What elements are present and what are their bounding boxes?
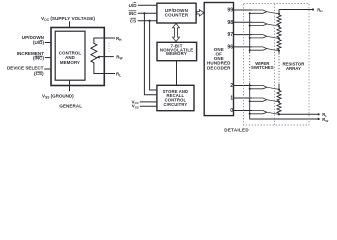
svg-text:ARRAY: ARRAY (286, 66, 301, 71)
svg-text:DETAILED: DETAILED (224, 128, 249, 133)
block STORE AND RECALL CONTROL CIRCUITRY U3 (157, 85, 194, 110)
resistor array element R99 (277, 14, 281, 26)
svg-text:GENERAL: GENERAL (59, 104, 82, 109)
switch SW97 wiper switch (249, 35, 280, 40)
svg-text:MEMORY: MEMORY (60, 60, 80, 65)
wire RL output (279, 113, 320, 115)
outer box general device (51, 28, 104, 86)
svg-text:2: 2 (230, 83, 233, 89)
wire INC input (45, 57, 51, 59)
dashed separator (274, 4, 276, 125)
wire decoder output 0 (234, 110, 253, 112)
switch SW99 wiper switch (249, 10, 280, 15)
svg-text:1: 1 (230, 96, 233, 102)
resistor array element R98 (277, 26, 281, 38)
block UP/DOWN COUNTER U1 (157, 3, 196, 23)
resistor array element R1 (277, 102, 281, 114)
wire decoder output 96 (234, 46, 253, 48)
wiper bus line (250, 13, 319, 119)
wire VCC lead (69, 21, 71, 27)
svg-text:97: 97 (227, 32, 233, 38)
resistor array element R97 (277, 39, 281, 51)
svg-text:0: 0 (230, 108, 233, 114)
svg-text:CS: CS (130, 18, 136, 23)
resistor array element R2 (277, 89, 281, 102)
switch SW1 wiper switch (249, 98, 280, 103)
label INC input (detailed) (129, 11, 138, 16)
block ONE OF ONE HUNDRED DECODER U4 (204, 3, 233, 116)
wire decoder output 99 (234, 9, 253, 11)
label INCREMENT (INC) (17, 51, 45, 60)
label DEVICE SELECT (CS) (7, 65, 44, 76)
wire RH output (279, 8, 314, 10)
dashed enclosure wiper switches / resistor array (244, 4, 310, 125)
svg-text:98: 98 (227, 20, 233, 26)
potentiometer resistor element (91, 43, 97, 64)
wiper arrow (97, 56, 114, 59)
wire resistor top lead to RH (94, 38, 115, 43)
wire VSS to store block (140, 105, 157, 107)
resistor chain top lead (278, 10, 280, 14)
svg-text:99: 99 (227, 8, 233, 14)
wire U/D input (45, 42, 51, 44)
bus double arrow counter-memory (173, 23, 180, 41)
label UP/DOWN (U/D) (22, 35, 45, 45)
wire decoder output 1 (234, 97, 253, 99)
wire RW output end dot (318, 118, 320, 120)
wire INC to counter with branch (138, 12, 157, 95)
svg-text:COUNTER: COUNTER (165, 12, 189, 17)
label RESISTOR ARRAY (282, 61, 305, 70)
dotted wiper travel line (108, 43, 110, 53)
bus arrow counter-decoder (197, 10, 204, 16)
switch SW2 wiper switch (249, 86, 280, 91)
wire decoder output 97 (234, 34, 253, 36)
wire resistor bottom lead to RL (94, 64, 115, 74)
switch SW98 wiper switch (249, 22, 280, 27)
wire decoder output 2 (234, 85, 253, 87)
block 7-BIT NONVOLATILE MEMORY U2 (157, 42, 197, 60)
switch SW96 wiper switch (249, 47, 280, 52)
label U/D input (detailed) (129, 3, 138, 8)
wire U/D to counter (138, 4, 157, 6)
wire decoder output 98 (234, 21, 253, 23)
wire CS to counter with branch (138, 20, 157, 90)
svg-text:DEVICE SELECT: DEVICE SELECT (7, 65, 44, 70)
wire memory to store/recall (176, 61, 178, 85)
wire CS input (44, 68, 51, 70)
label CS input (detailed) (130, 18, 136, 23)
svg-text:96: 96 (227, 45, 233, 51)
svg-text:SWITCHES: SWITCHES (251, 65, 274, 70)
svg-text:(U/D): (U/D) (33, 40, 44, 45)
label WIPER SWITCHES (251, 61, 274, 70)
resistor chain continuation (dotted) (278, 51, 280, 90)
svg-text:INC: INC (129, 11, 138, 16)
wire VSS lead (69, 80, 71, 91)
svg-text:U/D: U/D (129, 3, 138, 8)
block CONTROL AND MEMORY (55, 31, 85, 80)
svg-text:CIRCUITRY: CIRCUITRY (164, 102, 188, 107)
svg-text:MEMORY: MEMORY (166, 51, 187, 56)
svg-text:DECODER: DECODER (207, 65, 231, 70)
switch SW0 wiper switch (249, 111, 280, 116)
wire VCC to store block (140, 101, 157, 103)
